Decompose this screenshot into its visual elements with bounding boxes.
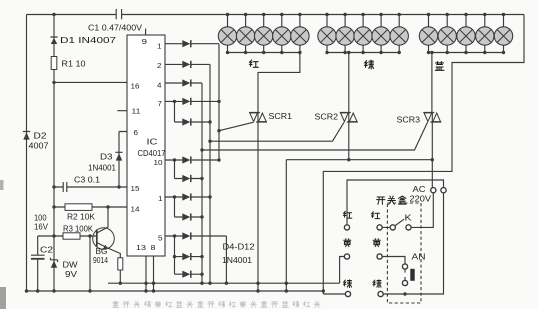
svg-text:16: 16 [131, 82, 140, 91]
svg-text:D3: D3 [100, 153, 113, 162]
svg-text:BG: BG [96, 247, 108, 256]
svg-text:13: 13 [136, 243, 146, 252]
svg-text:D2: D2 [34, 132, 48, 141]
svg-text:1N4001: 1N4001 [88, 164, 117, 173]
svg-text:1: 1 [157, 42, 162, 51]
svg-text:R3 100K: R3 100K [63, 225, 94, 234]
svg-text:AN: AN [412, 253, 426, 262]
svg-text:D4-D12: D4-D12 [223, 243, 256, 252]
svg-text:D1 IN4007: D1 IN4007 [60, 36, 117, 45]
svg-text:8: 8 [151, 243, 156, 252]
svg-text:SCR3: SCR3 [397, 116, 421, 125]
svg-text:11: 11 [132, 107, 141, 116]
svg-text:SCR2: SCR2 [315, 113, 339, 122]
svg-text:2: 2 [157, 61, 162, 70]
svg-text:14: 14 [131, 205, 140, 214]
svg-text:SCR1: SCR1 [269, 112, 293, 121]
svg-text:16V: 16V [34, 223, 49, 232]
svg-text:K: K [405, 213, 412, 223]
svg-text:R2 10K: R2 10K [67, 213, 96, 222]
svg-text:C1 0.47/400V: C1 0.47/400V [88, 24, 143, 33]
svg-text:4007: 4007 [29, 142, 50, 151]
svg-text:100: 100 [34, 214, 47, 223]
svg-text:C2: C2 [40, 246, 54, 255]
svg-text:4: 4 [157, 81, 162, 90]
svg-text:220V: 220V [410, 195, 432, 204]
svg-text:IC: IC [147, 138, 158, 147]
svg-text:CD4017: CD4017 [138, 149, 167, 158]
svg-text:15: 15 [131, 184, 140, 193]
svg-text:6: 6 [134, 128, 139, 137]
svg-text:7: 7 [158, 99, 163, 108]
svg-text:1: 1 [158, 194, 163, 203]
svg-text:R1 10: R1 10 [62, 60, 87, 69]
svg-text:C3 0.1: C3 0.1 [74, 176, 101, 185]
svg-text:9014: 9014 [93, 256, 108, 265]
svg-text:DW: DW [63, 261, 79, 270]
svg-text:AC: AC [413, 185, 426, 194]
svg-text:9V: 9V [65, 270, 78, 279]
svg-text:1N4001: 1N4001 [222, 256, 253, 265]
svg-text:9: 9 [142, 37, 148, 46]
svg-text:10: 10 [154, 158, 163, 167]
svg-text:5: 5 [158, 234, 163, 243]
